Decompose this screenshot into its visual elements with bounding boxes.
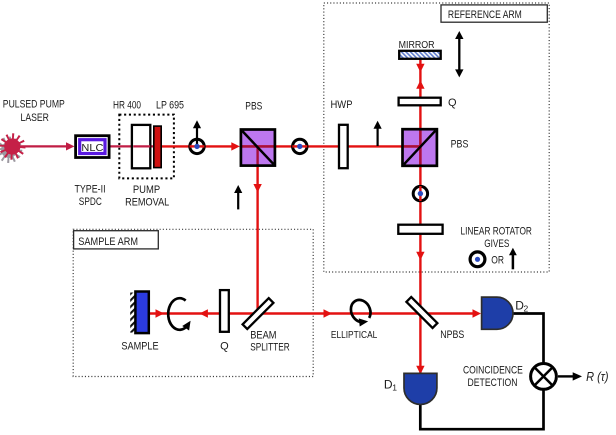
reference arm dashed enclosure — [324, 3, 549, 272]
polarization arrow up (rotator output option) — [509, 248, 517, 270]
beam splitter (tilted, sample arm) — [243, 298, 274, 329]
svg-text:Q: Q — [448, 97, 457, 109]
circular polarization arrow (sample arm) — [168, 298, 194, 330]
sample arm dashed enclosure — [73, 229, 313, 376]
beam: reference arm vertical, mirror to D1 — [416, 59, 424, 375]
PBS cube U1 fill — [241, 130, 275, 166]
detector D2 — [482, 297, 513, 329]
svg-text:REMOVAL: REMOVAL — [125, 197, 169, 209]
beam: laser to NLC (crimson) — [12, 142, 75, 150]
coincidence detection mixer symbol — [531, 364, 557, 390]
polarization symbol: circle-dot after PBS U1 — [292, 139, 307, 153]
label PULSED PUMP LASER — [3, 99, 65, 124]
svg-text:Q: Q — [220, 340, 229, 352]
label COINCIDENCE DETECTION — [463, 364, 523, 389]
svg-text:SAMPLE ARM: SAMPLE ARM — [78, 236, 138, 248]
NLC crystal box — [76, 136, 110, 158]
mirror translation double arrow — [455, 31, 463, 77]
PBS cube U1 border and diagonal — [241, 130, 275, 166]
svg-text:PUMP: PUMP — [133, 184, 160, 196]
beam inside PBS U1 vertical (dark) — [256, 147, 258, 165]
svg-text:PULSED PUMP: PULSED PUMP — [3, 99, 65, 111]
svg-text:SPLITTER: SPLITTER — [250, 342, 290, 354]
svg-text:MIRROR: MIRROR — [399, 40, 435, 51]
svg-text:HR 400: HR 400 — [113, 99, 141, 111]
label LINEAR ROTATOR GIVES — [461, 225, 532, 250]
wire: D2 to coincidence circuit — [512, 314, 544, 363]
svg-text:ELLIPTICAL: ELLIPTICAL — [331, 329, 378, 341]
svg-text:DETECTION: DETECTION — [468, 377, 518, 389]
label box REFERENCE ARM — [441, 5, 547, 22]
mirror (reference arm) — [399, 51, 441, 59]
svg-text:NPBS: NPBS — [440, 329, 464, 341]
svg-text:2: 2 — [524, 304, 529, 314]
svg-text:OR: OR — [491, 255, 504, 267]
polarization symbol: circle-dot node after SPDC — [190, 120, 205, 153]
svg-text:SPDC: SPDC — [79, 196, 102, 208]
label PUMP REMOVAL — [125, 184, 169, 208]
svg-text:GIVES: GIVES — [484, 238, 509, 250]
polarization symbol: circle-dot below PBS U2 — [413, 186, 427, 201]
svg-text:R (τ): R (τ) — [586, 370, 608, 384]
svg-text:LINEAR ROTATOR: LINEAR ROTATOR — [461, 225, 532, 237]
sample (blue) — [135, 292, 148, 334]
PBS cube U2 fill — [403, 129, 437, 166]
detector D1 — [404, 373, 437, 404]
svg-text:COINCIDENCE: COINCIDENCE — [463, 364, 523, 376]
wire: D1 to coincidence circuit — [420, 390, 543, 429]
linear rotator plate — [398, 225, 442, 234]
Q quarter-wave plate (sample arm) — [220, 290, 229, 332]
polarization symbol: circle-dot (rotator output option) — [470, 252, 485, 267]
svg-text:LP 695: LP 695 — [156, 99, 184, 111]
svg-text:LASER: LASER — [21, 112, 49, 124]
laser source (pulsed pump laser) — [0, 133, 25, 163]
pump removal dotted box — [119, 115, 174, 179]
LP 695 filter — [154, 126, 161, 168]
label box SAMPLE ARM — [74, 231, 159, 249]
polarization arrow up, below-left of PBS U1 — [234, 185, 242, 209]
label TYPE-II SPDC — [74, 184, 105, 208]
svg-text:PBS: PBS — [451, 139, 469, 151]
PBS cube U2 border and diagonal — [403, 129, 437, 166]
label D1 — [384, 377, 397, 392]
svg-text:REFERENCE ARM: REFERENCE ARM — [448, 9, 522, 21]
beam inside PBS U2 (dark) — [404, 145, 422, 147]
beam inside PBS U2 vertical (dark) — [419, 130, 421, 165]
label D2 — [515, 298, 528, 313]
svg-text:SAMPLE: SAMPLE — [121, 340, 158, 352]
Q quarter-wave plate (reference arm) — [399, 98, 441, 106]
NPBS (tilted non-polarizing beam splitter) — [406, 297, 437, 328]
sample hatched backing — [130, 293, 135, 333]
svg-text:NLC: NLC — [81, 142, 103, 154]
svg-text:HWP: HWP — [331, 99, 353, 111]
svg-text:BEAM: BEAM — [250, 329, 276, 341]
beam: sample arm horizontal, sample to D2 — [150, 309, 482, 317]
beam: LP695 to PBS U1 (red) — [158, 142, 240, 150]
HR 400 filter — [132, 125, 150, 168]
label BEAM SPLITTER — [250, 329, 290, 353]
beam: PBS U1 to PBS U2 (red, through HWP) — [242, 145, 420, 147]
svg-text:1: 1 — [392, 383, 397, 393]
elliptical polarization symbol — [347, 297, 376, 330]
beam: PBS U1 down to beam splitter — [253, 165, 261, 314]
beam: NLC to LP695 filter (crimson) — [109, 145, 155, 147]
svg-text:TYPE-II: TYPE-II — [74, 184, 105, 196]
beam inside PBS U1 (dark) — [242, 145, 274, 147]
output arrow from coincidence — [558, 372, 582, 380]
polarization arrow up, between HWP and PBS U2 — [374, 121, 382, 146]
svg-text:PBS: PBS — [245, 101, 262, 113]
HWP plate — [339, 125, 348, 168]
